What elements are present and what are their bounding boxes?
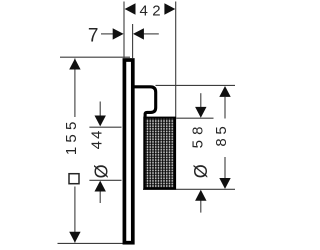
o44 bottom arrow (up) xyxy=(95,181,106,192)
7 dim tails xyxy=(101,33,113,35)
o58 top arrow (down) xyxy=(195,107,206,118)
o58 top tail xyxy=(200,93,202,107)
wall plate xyxy=(124,60,132,243)
svg-text:58: 58 xyxy=(189,121,206,148)
155 dim line lower xyxy=(74,187,76,243)
155 bottom ext xyxy=(58,242,128,244)
o44 bottom ext xyxy=(89,179,121,181)
svg-text:155: 155 xyxy=(63,117,80,155)
svg-text:42: 42 xyxy=(139,2,165,19)
svg-text:Ø: Ø xyxy=(191,164,211,178)
85 bottom arrow (down) xyxy=(219,178,230,189)
svg-text:85: 85 xyxy=(213,123,230,147)
155 top ext xyxy=(60,56,130,58)
42 right arrow xyxy=(164,3,175,14)
ext line right of 7 xyxy=(132,24,134,58)
o44 top arrow (down) xyxy=(95,116,106,127)
7 left arrow (pointing right) xyxy=(113,28,124,39)
7 right arrow (pointing left) xyxy=(133,28,144,39)
svg-text:44: 44 xyxy=(89,129,106,150)
42 left arrow xyxy=(125,3,136,14)
ext line right of 42 xyxy=(175,2,177,120)
155 top arrow (up) xyxy=(69,59,80,70)
o44 top tail xyxy=(99,102,101,117)
handle lever profile xyxy=(134,87,156,119)
85 mid line xyxy=(224,157,226,179)
square symbol xyxy=(69,174,79,184)
svg-text:7: 7 xyxy=(88,26,99,47)
155 bottom arrow (down) xyxy=(69,232,80,243)
85 top ext xyxy=(156,84,236,86)
o58 bottom arrow (up) xyxy=(195,190,206,201)
o58 bottom tail xyxy=(200,200,202,212)
o44 top ext xyxy=(89,126,121,128)
155 dim line upper xyxy=(74,59,76,118)
ext line left of 42/7 xyxy=(123,2,125,59)
85 top arrow (up) xyxy=(219,86,230,97)
svg-text:Ø: Ø xyxy=(92,164,112,178)
knurled handle cylinder xyxy=(144,118,175,189)
o58/85 bottom ext xyxy=(143,188,235,190)
o58 top ext xyxy=(177,117,214,119)
85 top tail xyxy=(224,97,226,119)
o44 bottom tail xyxy=(99,191,101,203)
